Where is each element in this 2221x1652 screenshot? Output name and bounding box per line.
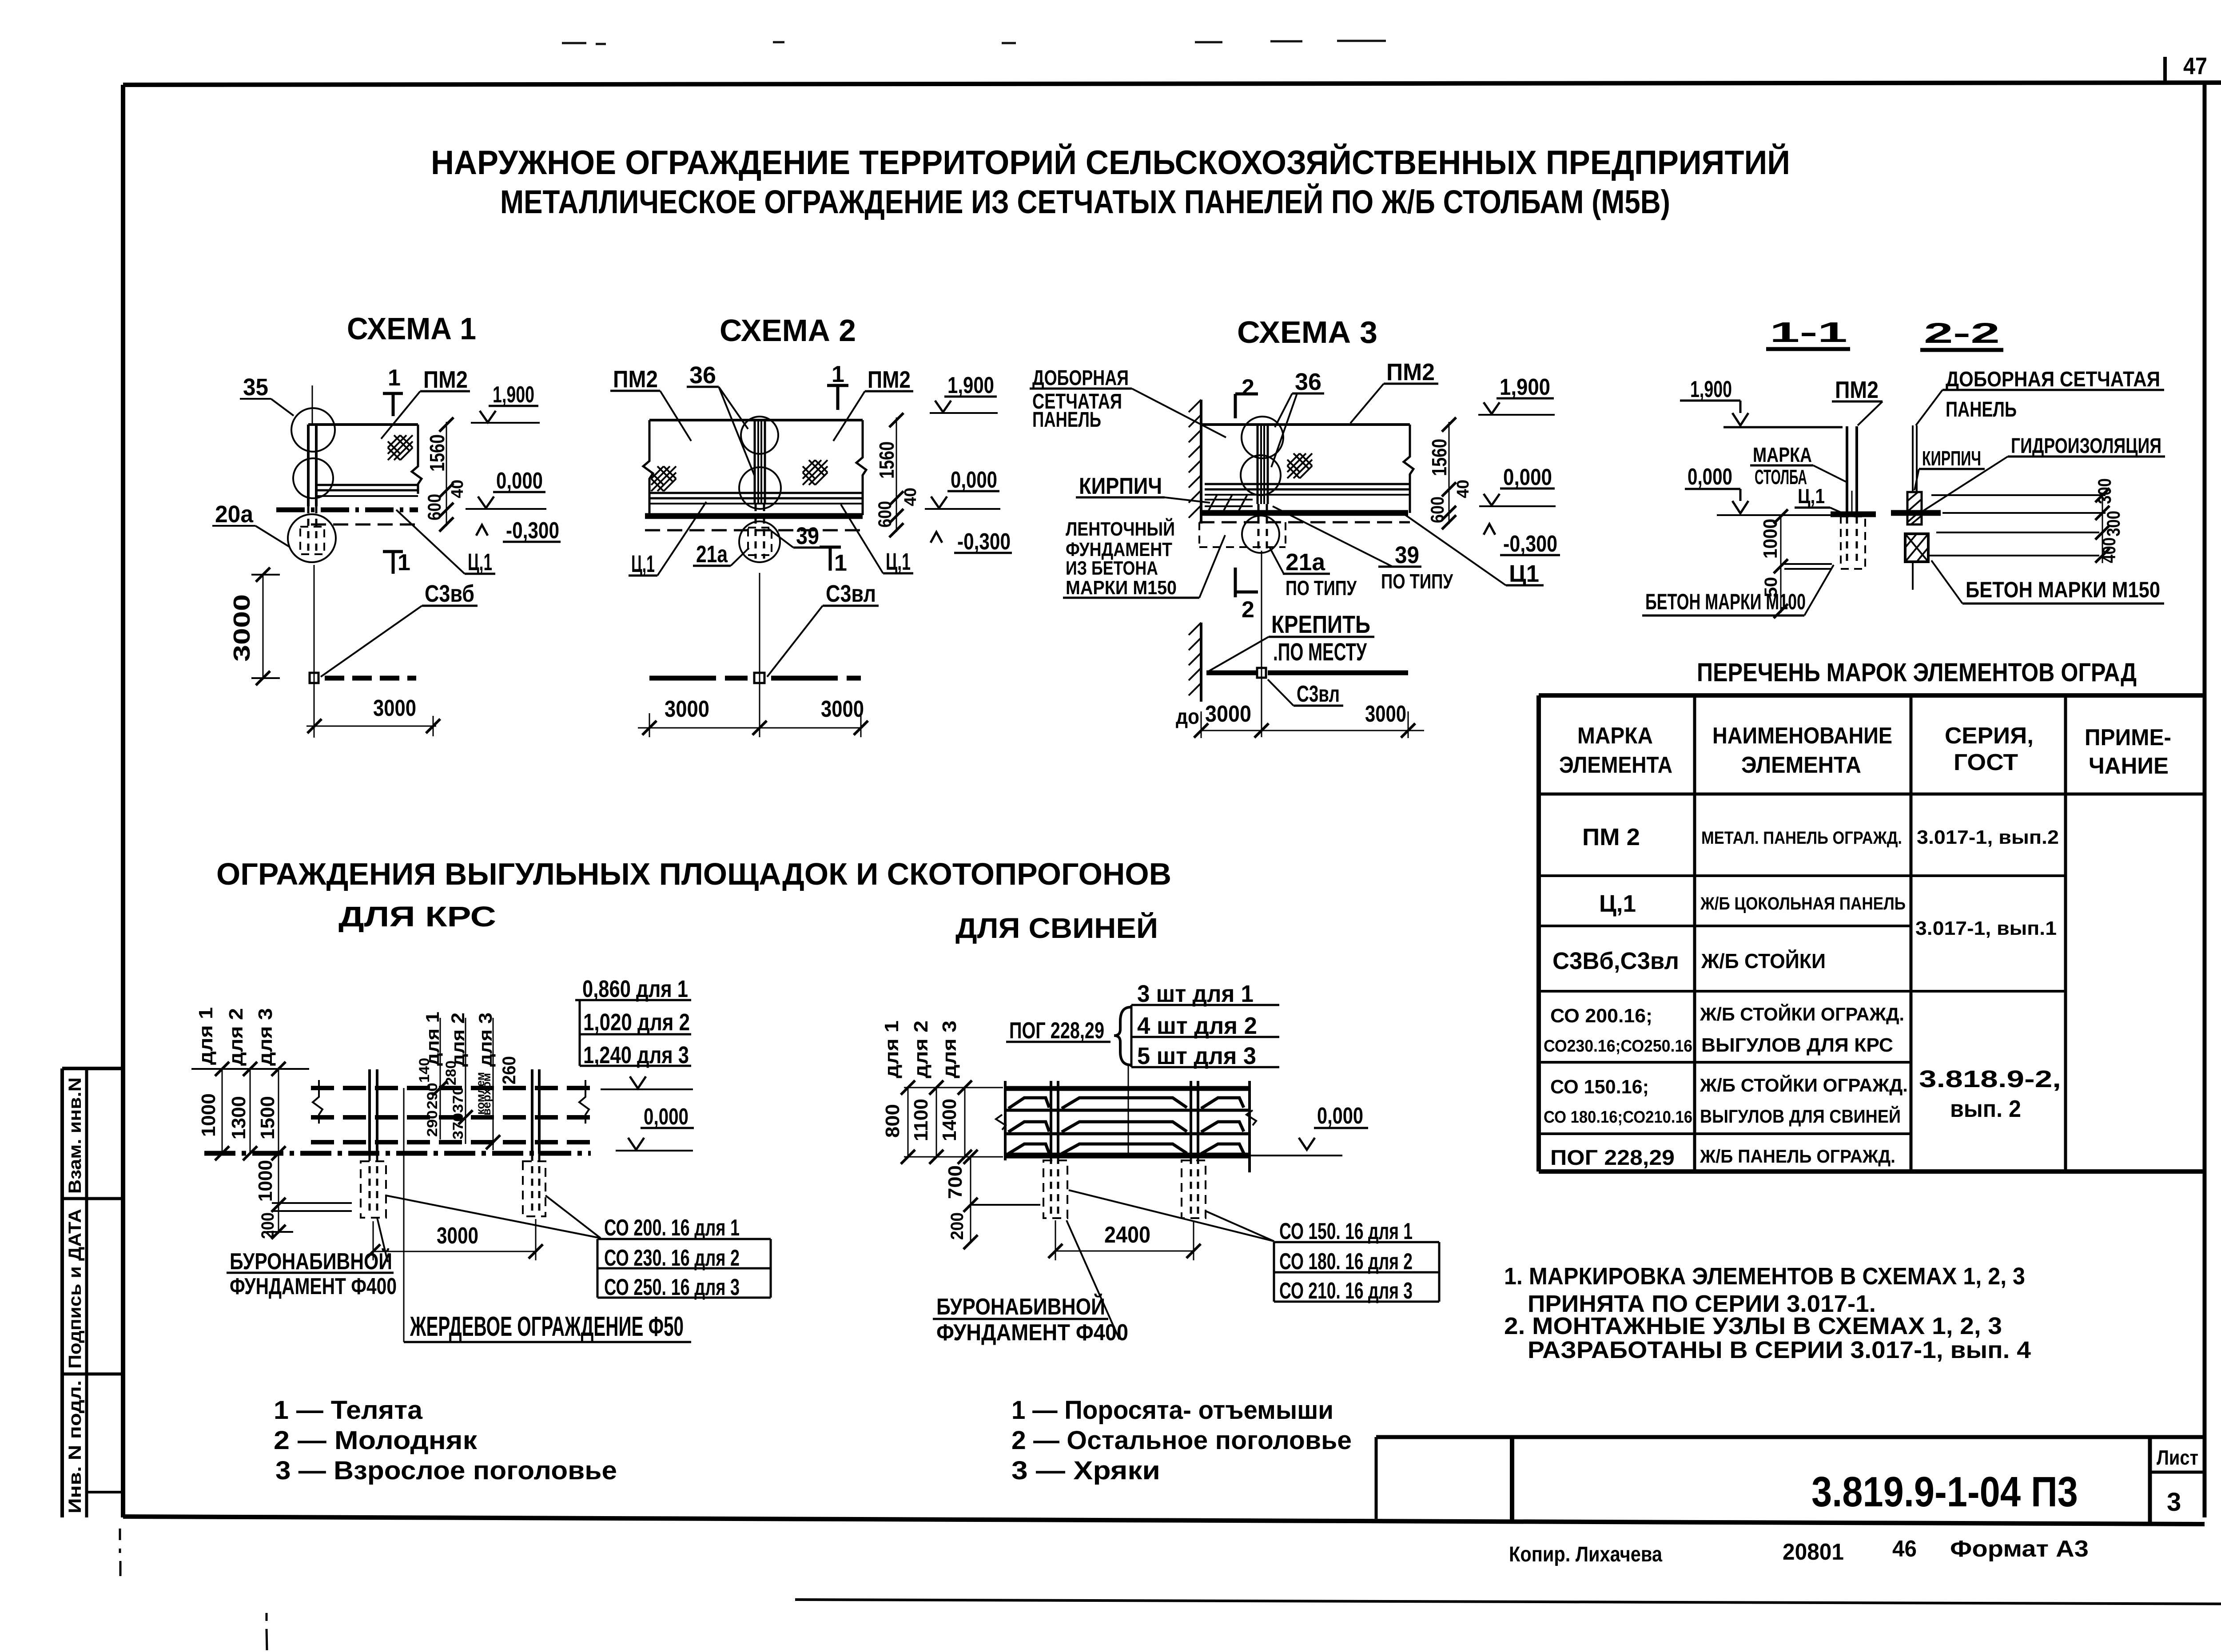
section flag 1 top (827, 384, 848, 387)
svg-text:Ц1: Ц1 (1509, 560, 1539, 587)
svg-text:35: 35 (243, 374, 268, 401)
foundation dashed box (748, 528, 772, 555)
svg-text:3: 3 (2167, 1488, 2181, 1517)
svg-text:39: 39 (1395, 542, 1419, 568)
level line 2 (1942, 512, 2106, 514)
plan wall line (1200, 623, 1202, 702)
plan centerline (314, 565, 315, 738)
svg-text:0,000: 0,000 (1317, 1103, 1363, 1129)
panel PM2 top chord (308, 423, 418, 426)
svg-text:2400: 2400 (1104, 1222, 1150, 1248)
frame left border (121, 85, 125, 1517)
svg-text:3000: 3000 (1365, 701, 1406, 727)
mid extension line 1 (440, 1018, 441, 1140)
dim 3000 vertical (263, 575, 264, 678)
svg-text:280: 280 (443, 1060, 459, 1085)
svg-text:1000: 1000 (255, 1160, 276, 1202)
post edge-on double line (1846, 426, 1848, 515)
frame top border (123, 83, 2221, 85)
post right (1190, 1081, 1192, 1157)
frame right border (2203, 84, 2207, 1517)
svg-text:ПО ТИПУ: ПО ТИПУ (1286, 576, 1357, 600)
svg-text:1400: 1400 (939, 1099, 960, 1141)
svg-text:3000: 3000 (665, 696, 709, 722)
svg-text:3000: 3000 (821, 696, 864, 722)
mid rail 1 (1005, 1109, 1250, 1112)
foundation dashed box (1841, 516, 1865, 569)
row line 2 (1539, 925, 1911, 927)
svg-text:СО 150. 16 для 1: СО 150. 16 для 1 (1279, 1219, 1413, 1244)
svg-text:ЭЛЕМЕНТА: ЭЛЕМЕНТА (1741, 752, 1861, 778)
break mark right (1246, 1110, 1256, 1125)
svg-text:1. МАРКИРОВКА ЭЛЕМЕНТОВ В С: 1. МАРКИРОВКА ЭЛЕМЕНТОВ В СХЕМАХ 1, 2, 3 (1504, 1263, 2025, 1290)
svg-text:Ж/Б СТОЙКИ ОГРАЖД.: Ж/Б СТОЙКИ ОГРАЖД. (1700, 1003, 1904, 1025)
svg-text:0,860 для 1: 0,860 для 1 (582, 976, 688, 1002)
foundation dashed box right (523, 1161, 545, 1216)
cokol bottom dashed -0.300 (311, 524, 418, 526)
svg-text:БУРОНАБИВНОЙ: БУРОНАБИВНОЙ (230, 1248, 392, 1275)
svg-text:ЧАНИЕ: ЧАНИЕ (2089, 753, 2169, 779)
left column inner divider (85, 1068, 88, 1517)
svg-text:40: 40 (901, 488, 920, 506)
svg-text:1,240 для 3: 1,240 для 3 (583, 1042, 689, 1068)
svg-text:Ц,1: Ц,1 (1599, 890, 1636, 917)
plan post square (1257, 668, 1266, 678)
svg-text:260: 260 (498, 1056, 519, 1084)
svg-text:1: 1 (832, 361, 844, 387)
svg-text:200: 200 (947, 1212, 967, 1240)
ground line thick dash-dot (276, 508, 418, 512)
level line 1 (1931, 494, 2106, 496)
svg-text:МЕТАЛ. ПАНЕЛЬ ОГРАЖД.: МЕТАЛ. ПАНЕЛЬ ОГРАЖД. (1701, 828, 1902, 848)
cokol panel top (316, 495, 418, 497)
section flag 2 bottom (1234, 568, 1237, 597)
dim chain vertical (896, 417, 897, 532)
rail break mark right (579, 1080, 589, 1124)
wall hatch ticks (1189, 400, 1201, 518)
svg-text:СХЕМА 1: СХЕМА 1 (347, 311, 476, 346)
svg-text:Ж/Б СТОЙКИ: Ж/Б СТОЙКИ (1701, 949, 1826, 973)
boards bay1 (1008, 1098, 1049, 1108)
svg-text:до: до (1176, 705, 1199, 729)
detail circle top (1242, 417, 1283, 458)
section flag 1 bottom (383, 550, 403, 553)
svg-text:290: 290 (424, 1110, 440, 1137)
table outer top (1539, 693, 2205, 698)
svg-text:для 2: для 2 (225, 1008, 247, 1066)
svg-text:Ж/Б СТОЙКИ ОГРАЖД.: Ж/Б СТОЙКИ ОГРАЖД. (1700, 1074, 1908, 1096)
svg-text:Лист: Лист (2157, 1446, 2198, 1469)
svg-text:2. МОНТАЖНЫЕ УЗЛЫ В СХЕМАХ: 2. МОНТАЖНЫЕ УЗЛЫ В СХЕМАХ 1, 2, 3 (1504, 1313, 2002, 1339)
detail circle bottom (1242, 516, 1279, 553)
svg-text:4 шт для 2: 4 шт для 2 (1137, 1013, 1257, 1039)
panel right edge (412, 425, 422, 494)
rail 1 (311, 1086, 591, 1090)
frame bottom border (123, 1517, 2205, 1524)
svg-text:для 1: для 1 (195, 1007, 217, 1065)
foundation dashed box left (1043, 1160, 1067, 1218)
dim extension line 3 (278, 1069, 279, 1234)
svg-text:НАРУЖНОЕ ОГРАЖДЕНИЕ ТЕРРИТОР: НАРУЖНОЕ ОГРАЖДЕНИЕ ТЕРРИТОРИЙ СЕЛЬСКОХО… (431, 143, 1790, 182)
svg-text:1,020 для 2: 1,020 для 2 (583, 1009, 690, 1036)
svg-text:ВЫГУЛОВ ДЛЯ СВИНЕЙ: ВЫГУЛОВ ДЛЯ СВИНЕЙ (1700, 1105, 1901, 1127)
left column top edge (62, 1067, 123, 1070)
svg-text:370: 370 (450, 1086, 466, 1113)
title block left step (1375, 1437, 1378, 1519)
MAIN_TITLE (431, 143, 1790, 220)
svg-text:СО 250. 16 для 3: СО 250. 16 для 3 (604, 1275, 740, 1300)
row line 4 (1539, 1061, 1911, 1064)
dim chain 1560/40/600 vertical (446, 422, 447, 526)
svg-text:для 2: для 2 (910, 1021, 932, 1078)
level line 4 (1928, 555, 2099, 556)
strip foundation dashed box (1198, 522, 1200, 547)
detail circle mid (293, 458, 333, 498)
detail circle bottom (739, 521, 780, 562)
post stub below block (1912, 562, 1914, 590)
svg-text:1: 1 (834, 550, 847, 576)
mesh hatch patch left (651, 466, 676, 491)
svg-text:0,000: 0,000 (1503, 465, 1552, 490)
svg-text:3.819.9-1-04 П3: 3.819.9-1-04 П3 (1811, 1468, 2078, 1516)
mesh hatch patch right (803, 460, 828, 485)
page number tick (2163, 57, 2167, 84)
top level line (1723, 426, 1843, 429)
plan centerline (759, 573, 760, 737)
svg-text:Взам. инв.N: Взам. инв.N (65, 1077, 85, 1194)
svg-text:ПО ТИПУ: ПО ТИПУ (1381, 570, 1453, 593)
svg-text:СО 230. 16 для 2: СО 230. 16 для 2 (604, 1245, 740, 1271)
svg-text:3000: 3000 (437, 1223, 478, 1249)
svg-text:ДОБОРНАЯ: ДОБОРНАЯ (1032, 366, 1129, 390)
detail circle top (741, 417, 778, 454)
svg-text:200: 200 (258, 1212, 278, 1239)
svg-text:ПМ2: ПМ2 (423, 366, 468, 393)
svg-text:3 — Взрослое поголовье: 3 — Взрослое поголовье (275, 1456, 617, 1485)
svg-text:для 3: для 3 (255, 1008, 276, 1066)
svg-text:140: 140 (416, 1058, 432, 1083)
svg-text:для 1: для 1 (881, 1021, 903, 1078)
svg-text:Ц,1: Ц,1 (468, 549, 492, 576)
svg-text:3.818.9-2,: 3.818.9-2, (1919, 1066, 2061, 1092)
svg-text:ДОБОРНАЯ СЕТЧАТАЯ: ДОБОРНАЯ СЕТЧАТАЯ (1946, 368, 2160, 391)
svg-text:1300: 1300 (228, 1096, 250, 1140)
foundation dashed box (300, 527, 324, 554)
post buried dashed (307, 506, 310, 556)
svg-text:2 — Молодняк: 2 — Молодняк (274, 1426, 478, 1455)
post buried dashed (755, 504, 757, 559)
svg-text:ПОГ 228,29: ПОГ 228,29 (1550, 1146, 1675, 1170)
mid extension line 3 (493, 1018, 494, 1150)
svg-text:300: 300 (2094, 478, 2115, 504)
svg-text:СО230.16;СО250.16: СО230.16;СО250.16 (1544, 1037, 1692, 1056)
svg-text:21а: 21а (1286, 549, 1325, 576)
svg-text:ОГРАЖДЕНИЯ ВЫГУЛЬНЫХ ПЛОЩ: ОГРАЖДЕНИЯ ВЫГУЛЬНЫХ ПЛОЩАДОК И СКОТОПРО… (216, 857, 1171, 891)
plan post square (310, 673, 318, 683)
ground rail thick (1005, 1153, 1250, 1159)
table column line 1 (1693, 695, 1696, 1171)
leaders to CO box (386, 1195, 601, 1238)
svg-text:Подпись и ДАТА: Подпись и ДАТА (65, 1209, 85, 1369)
svg-text:БЕТОН МАРКИ М100: БЕТОН МАРКИ М100 (1645, 589, 1806, 614)
svg-text:36: 36 (1295, 369, 1321, 395)
mesh hatch patch (388, 435, 413, 460)
post joint (4 lines) (754, 420, 756, 504)
fence post right (531, 1069, 533, 1154)
brick infill hatch (1205, 495, 1253, 513)
svg-text:МЕТАЛЛИЧЕСКОЕ ОГРАЖДЕНИЕ ИЗ: МЕТАЛЛИЧЕСКОЕ ОГРАЖДЕНИЕ ИЗ СЕТЧАТЫХ ПАН… (500, 183, 1670, 220)
left column divider 2 (62, 1373, 123, 1376)
post buried dashed (1258, 504, 1260, 551)
panel left edge with break (643, 420, 653, 515)
svg-text:ПОГ 228,29: ПОГ 228,29 (1009, 1018, 1104, 1044)
pen mark below frame left (120, 1529, 267, 1650)
rail break mark left (313, 1080, 322, 1124)
mid rail 2 (1005, 1132, 1250, 1136)
below ground dim 700/200 (970, 1157, 971, 1243)
svg-text:КИРПИЧ: КИРПИЧ (1079, 473, 1162, 499)
svg-text:1,900: 1,900 (1690, 377, 1732, 402)
panel bottom rail double (649, 492, 863, 494)
svg-text:300: 300 (2103, 511, 2124, 536)
cokol top (649, 503, 863, 504)
post left (1050, 1081, 1052, 1157)
svg-text:-0,300: -0,300 (1503, 531, 1557, 557)
svg-text:1500: 1500 (257, 1096, 279, 1140)
svg-text:РАЗРАБОТАНЫ В СЕРИИ 3.017-1: РАЗРАБОТАНЫ В СЕРИИ 3.017-1, вып. 4 (1528, 1337, 2031, 1363)
arrow to fence top level (630, 1076, 646, 1088)
svg-text:КИРПИЧ: КИРПИЧ (1922, 447, 1981, 470)
svg-text:ФУНДАМЕНТ Ф400: ФУНДАМЕНТ Ф400 (936, 1320, 1128, 1346)
fence right edge (1248, 1081, 1251, 1172)
ground line thick (1831, 512, 1876, 517)
plan centerline (1261, 551, 1262, 737)
svg-text:3.017-1, вып.1: 3.017-1, вып.1 (1915, 917, 2057, 939)
table outer bottom (1539, 1169, 2205, 1174)
dim extension verticals (908, 1088, 909, 1157)
dim extension line 2 (250, 1069, 251, 1153)
break mark left (996, 1115, 1006, 1130)
left column divider 1 (62, 1197, 123, 1200)
cokol top (1205, 494, 1410, 496)
row line 3 (1539, 990, 2066, 993)
svg-text:1000: 1000 (1759, 519, 1781, 559)
svg-text:ПМ2: ПМ2 (1835, 377, 1879, 403)
svg-text:0,000: 0,000 (644, 1104, 689, 1130)
svg-text:СЕРИЯ,: СЕРИЯ, (1945, 723, 2034, 749)
svg-text:БЕТОН МАРКИ М150: БЕТОН МАРКИ М150 (1966, 577, 2160, 602)
svg-text:СО 180.16;СО210.16: СО 180.16;СО210.16 (1544, 1108, 1692, 1127)
svg-text:для 3: для 3 (475, 1013, 496, 1067)
svg-text:290: 290 (424, 1083, 440, 1109)
ground line thick (645, 513, 863, 519)
foundation dashed box left (361, 1161, 386, 1218)
svg-text:Инв. N подл.: Инв. N подл. (65, 1380, 85, 1513)
svg-text:-0,300: -0,300 (957, 529, 1011, 555)
detail circle mid (1241, 455, 1281, 495)
detail circle 35 top (291, 408, 335, 452)
svg-text:СХЕМА 3: СХЕМА 3 (1237, 315, 1377, 349)
level line 3 dashed (1936, 532, 2099, 533)
curly brace (1114, 1007, 1130, 1065)
plan fence line right (771, 676, 861, 681)
svg-text:20801: 20801 (1783, 1539, 1844, 1565)
plan fence line thick dashed (325, 676, 416, 681)
svg-text:для 1: для 1 (422, 1012, 443, 1066)
ground line thick (1201, 510, 1408, 516)
svg-text:0,000: 0,000 (951, 467, 997, 493)
panel top chord (649, 419, 863, 421)
svg-text:2: 2 (1242, 597, 1254, 623)
svg-text:С3вл: С3вл (1297, 681, 1340, 707)
svg-text:.ПО МЕСТУ: .ПО МЕСТУ (1273, 638, 1367, 666)
plan fence line right (1268, 671, 1408, 675)
svg-text:ГИДРОИЗОЛЯЦИЯ: ГИДРОИЗОЛЯЦИЯ (2011, 434, 2161, 458)
List cell divider (2150, 1471, 2205, 1474)
top rail (1005, 1086, 1250, 1091)
svg-text:1,900: 1,900 (1500, 374, 1550, 400)
svg-text:ПМ2: ПМ2 (868, 366, 911, 393)
svg-text:21а: 21а (696, 541, 728, 568)
svg-text:ПМ2: ПМ2 (1386, 359, 1435, 385)
svg-text:2 — Остальное поголовье: 2 — Остальное поголовье (1011, 1426, 1352, 1455)
svg-text:СО 200. 16 для 1: СО 200. 16 для 1 (604, 1215, 740, 1241)
dim chain vertical (1449, 422, 1450, 524)
svg-text:Формат А3: Формат А3 (1950, 1536, 2089, 1562)
svg-text:3000: 3000 (373, 695, 416, 721)
svg-text:-0,300: -0,300 (506, 518, 559, 544)
svg-text:47: 47 (2183, 53, 2207, 79)
svg-text:ДЛЯ КРС: ДЛЯ КРС (338, 901, 496, 933)
svg-text:ФУНДАМЕНТ Ф400: ФУНДАМЕНТ Ф400 (230, 1274, 397, 1299)
top tick line (191, 1068, 309, 1070)
panel bottom rail double (1205, 483, 1410, 485)
double line post bottom (1784, 563, 1832, 565)
leader through fence (1128, 1065, 1129, 1155)
left column divider 3 (87, 1491, 123, 1493)
svg-text:5 шт для 3: 5 шт для 3 (1137, 1043, 1256, 1069)
LEFT_COLUMN (62, 1068, 123, 1517)
table left edge (1536, 695, 1541, 1171)
svg-text:верхом: верхом (480, 1073, 493, 1116)
svg-text:1 — Телята: 1 — Телята (274, 1396, 423, 1425)
svg-text:Ц,1: Ц,1 (886, 548, 911, 575)
rail 3 (311, 1140, 591, 1144)
svg-text:1560: 1560 (426, 434, 449, 472)
svg-text:3 шт для 1: 3 шт для 1 (1137, 981, 1254, 1007)
svg-text:С3Вб,С3вл: С3Вб,С3вл (1552, 948, 1679, 974)
detail circle 20a bottom (288, 514, 336, 562)
svg-text:600: 600 (874, 501, 895, 528)
outer trim line bottom (795, 1600, 2221, 1604)
detail circle mid (739, 467, 781, 509)
brick pillar (1907, 492, 1922, 524)
svg-text:0,000: 0,000 (496, 468, 543, 494)
svg-text:3000: 3000 (1205, 701, 1251, 727)
svg-text:1-1: 1-1 (1770, 316, 1847, 348)
plan fence line left (1206, 671, 1257, 675)
svg-text:СО 150.16;: СО 150.16; (1550, 1076, 1649, 1098)
svg-text:400: 400 (2098, 537, 2119, 563)
tick line below ground double (272, 1202, 352, 1204)
left extension thin lines (904, 1087, 1003, 1088)
svg-text:КРЕПИТЬ: КРЕПИТЬ (1271, 610, 1370, 638)
mid extension line 2 (465, 1018, 466, 1144)
svg-text:Ж/Б ПАНЕЛЬ ОГРАЖД.: Ж/Б ПАНЕЛЬ ОГРАЖД. (1700, 1146, 1895, 1167)
ground level line (1717, 514, 1831, 516)
svg-text:3000: 3000 (229, 594, 255, 662)
svg-text:40: 40 (1454, 480, 1473, 498)
svg-text:для 3: для 3 (939, 1021, 960, 1078)
svg-text:МАРКИ М150: МАРКИ М150 (1066, 577, 1177, 599)
dim vertical 300/300/400 (2102, 493, 2103, 563)
post C3B6 (double line) (307, 425, 310, 506)
doborna panel edge-on (1912, 425, 1914, 492)
left column outer line (60, 1068, 64, 1517)
svg-text:1 — Поросята- отъемыши: 1 — Поросята- отъемыши (1011, 1396, 1333, 1425)
svg-text:ПМ2: ПМ2 (613, 366, 658, 393)
svg-text:БУРОНАБИВНОЙ: БУРОНАБИВНОЙ (936, 1294, 1105, 1320)
post buried dashed (1846, 516, 1848, 565)
svg-text:ДЛЯ СВИНЕЙ: ДЛЯ СВИНЕЙ (955, 912, 1158, 944)
svg-text:МАРКА: МАРКА (1753, 443, 1812, 466)
svg-text:ЖЕРДЕВОЕ ОГРАЖДЕНИЕ Ф50: ЖЕРДЕВОЕ ОГРАЖДЕНИЕ Ф50 (410, 1311, 684, 1342)
svg-text:3.017-1, вып.2: 3.017-1, вып.2 (1917, 826, 2059, 848)
svg-text:Копир. Лихачева: Копир. Лихачева (1509, 1543, 1662, 1566)
svg-text:ИЗ БЕТОНА: ИЗ БЕТОНА (1066, 557, 1158, 579)
panel top chord (1201, 423, 1410, 426)
ground line dash-dot thick (204, 1151, 591, 1156)
below ground dashed line (1199, 521, 1410, 524)
post joint (4 lines) (1257, 425, 1259, 504)
concrete block (1905, 534, 1928, 562)
svg-text:Ж/Б ЦОКОЛЬНАЯ ПАНЕЛЬ: Ж/Б ЦОКОЛЬНАЯ ПАНЕЛЬ (1700, 894, 1906, 913)
svg-text:С3вл: С3вл (826, 580, 876, 607)
svg-text:1: 1 (388, 365, 401, 391)
panel right edge with break (1404, 425, 1413, 513)
svg-text:600: 600 (1427, 496, 1448, 523)
svg-text:1,900: 1,900 (493, 382, 534, 408)
plan post square (754, 673, 764, 683)
svg-text:ПМ 2: ПМ 2 (1582, 824, 1640, 850)
svg-text:СО 210. 16 для 3: СО 210. 16 для 3 (1279, 1278, 1413, 1304)
table column line 3 (2064, 695, 2067, 1171)
svg-text:1100: 1100 (910, 1099, 932, 1141)
stamp box left edge (1510, 1437, 1514, 1521)
cokol bottom dashed (645, 529, 863, 532)
svg-text:3 — Хряки: 3 — Хряки (1011, 1456, 1160, 1485)
svg-text:ЛЕНТОЧНЫЙ: ЛЕНТОЧНЫЙ (1066, 517, 1175, 540)
row line 1 (1539, 874, 2066, 877)
mesh hatch patch (1287, 453, 1312, 478)
panel right edge with break (856, 420, 866, 515)
svg-text:46: 46 (1892, 1536, 1917, 1562)
svg-text:СО 180. 16 для 2: СО 180. 16 для 2 (1279, 1249, 1413, 1275)
svg-text:ГОСТ: ГОСТ (1954, 750, 2018, 775)
svg-text:ПАНЕЛЬ: ПАНЕЛЬ (1032, 408, 1101, 432)
post centerline above (312, 385, 313, 425)
svg-text:700: 700 (944, 1165, 966, 1199)
svg-text:ВЫГУЛОВ ДЛЯ КРС: ВЫГУЛОВ ДЛЯ КРС (1701, 1034, 1893, 1056)
svg-text:40: 40 (448, 480, 467, 498)
fence post left (368, 1069, 371, 1154)
dim extension line 1 (222, 1069, 223, 1153)
svg-text:20а: 20а (215, 501, 254, 528)
header bottom line (1539, 793, 2205, 796)
foundation dashed box right (1182, 1160, 1206, 1218)
row line 5 (1539, 1132, 1911, 1135)
plan fence line left (649, 676, 748, 681)
